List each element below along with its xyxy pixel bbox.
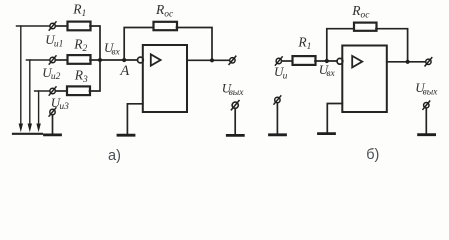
- svg-text:б): б): [366, 147, 379, 163]
- node A junction: [122, 58, 126, 62]
- wire: Roc to output node: [177, 28, 213, 60]
- op-amp DA1 body: [143, 45, 187, 112]
- svg-text:A: A: [119, 63, 129, 79]
- terminal: output (right circuit): [425, 58, 432, 66]
- ground: op-amp non-inverting input (right): [319, 133, 335, 135]
- bar under voltage arrows: [13, 133, 42, 135]
- terminal: output (left circuit): [229, 56, 236, 64]
- terminal: input common: [49, 108, 56, 116]
- wire: input 1 lead to terminal: [17, 25, 50, 27]
- terminal: input 2: [49, 56, 56, 64]
- svg-text:Uвх: Uвх: [319, 62, 336, 79]
- svg-text:Uи2: Uи2: [42, 65, 60, 82]
- wire: U_vyx terminal to ground (left): [234, 108, 236, 134]
- terminal: input 3: [49, 87, 56, 95]
- junction: resistors summing point: [98, 58, 102, 62]
- wire: common terminal to ground: [52, 115, 54, 134]
- svg-text:Rос: Rос: [351, 3, 370, 21]
- ground: U_vyx (right): [419, 134, 435, 136]
- wire: summing node to op-amp input, node A: [90, 59, 137, 61]
- svg-text:а): а): [108, 148, 121, 164]
- ground: input common: [45, 134, 61, 136]
- ground: op-amp non-inverting input: [118, 134, 134, 136]
- svg-text:Rос: Rос: [155, 2, 174, 20]
- resistor R3: [67, 86, 90, 95]
- wire: terminal 2 to R2: [56, 59, 67, 61]
- wire: U_vyx terminal to ground (right): [425, 108, 427, 133]
- voltage arrow U_i2: [29, 60, 31, 124]
- wire: feedback from node A up and right: [124, 28, 153, 60]
- wire: Roc to output node (right): [376, 29, 408, 61]
- resistor R1 (right): [293, 56, 316, 65]
- junction: output node: [210, 58, 214, 62]
- wire: input terminal to R1 (right): [282, 60, 292, 62]
- wire: feedback up from input node (right): [327, 29, 354, 60]
- svg-text:R1: R1: [297, 34, 311, 52]
- svg-text:Uвых: Uвых: [415, 80, 438, 97]
- resistor Roc (left): [154, 22, 178, 30]
- wire: op-amp non-inverting input to ground (right): [327, 104, 342, 133]
- terminal: U_vyx lower (left): [231, 101, 239, 110]
- svg-text:Uвых: Uвых: [222, 81, 244, 98]
- op-amp DA2 body: [342, 46, 387, 113]
- terminal: input 1: [49, 22, 56, 30]
- svg-text:Uи1: Uи1: [45, 32, 63, 49]
- ground: U_vyx (left): [227, 134, 243, 136]
- wire: R1 to op-amp input (right): [315, 60, 337, 62]
- svg-text:R3: R3: [74, 67, 88, 85]
- terminal: input U_i: [275, 57, 282, 65]
- wire: R1 to summing node: [90, 26, 100, 59]
- wire: op-amp non-inverting input to ground: [127, 104, 142, 134]
- svg-text:Uи: Uи: [274, 64, 288, 81]
- wire: op-amp output to output terminal: [187, 59, 230, 61]
- wire: input 3 lead to terminal: [35, 90, 50, 92]
- ground: input common (right): [270, 134, 286, 136]
- op-amp DA2 amplifier triangle: [352, 56, 362, 68]
- junction: output node (right): [406, 60, 410, 64]
- wire: terminal 1 to R1: [56, 25, 67, 27]
- wire: op-amp output to output terminal (right): [387, 61, 426, 63]
- resistor Roc (right): [354, 23, 377, 31]
- voltage arrow U_i1: [20, 26, 22, 124]
- terminal: U_vyx lower (right): [423, 101, 430, 109]
- svg-text:R1: R1: [72, 2, 86, 20]
- op-amp DA2 inverting input circle: [337, 58, 343, 64]
- terminal: input common (right): [274, 96, 281, 104]
- wire: input 2 lead to terminal: [26, 59, 49, 61]
- wire: R3 up to summing node: [90, 61, 101, 91]
- wire: common terminal to ground (right): [276, 103, 278, 133]
- resistor R1: [68, 22, 91, 31]
- junction: input node (right): [325, 59, 329, 63]
- voltage arrow U_i3: [38, 91, 40, 124]
- op-amp DA1 inverting input circle: [138, 57, 144, 63]
- svg-text:Uвх: Uвх: [104, 40, 121, 57]
- resistor R2: [68, 55, 91, 64]
- wire: terminal 3 to R3: [56, 90, 67, 92]
- op-amp DA1 amplifier triangle: [151, 54, 161, 65]
- svg-text:R2: R2: [73, 36, 87, 54]
